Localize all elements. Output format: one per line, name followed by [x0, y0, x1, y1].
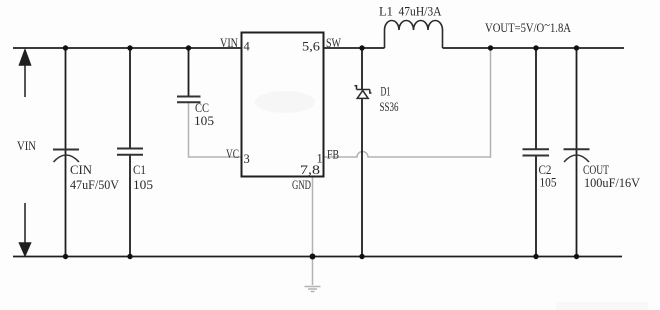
svg-text:VIN: VIN [17, 139, 36, 153]
svg-text:VC: VC [226, 147, 239, 161]
svg-text:105: 105 [133, 178, 153, 192]
svg-text:105: 105 [194, 114, 214, 128]
svg-text:C1: C1 [133, 163, 146, 177]
svg-text:7,8: 7,8 [300, 163, 320, 177]
svg-text:VIN: VIN [220, 36, 238, 50]
svg-text:CC: CC [195, 101, 209, 115]
svg-text:4: 4 [244, 40, 251, 54]
svg-text:100uF/16V: 100uF/16V [584, 176, 640, 190]
svg-text:GND: GND [292, 178, 311, 192]
svg-text:47uF/50V: 47uF/50V [70, 178, 119, 192]
svg-text:L1: L1 [379, 5, 393, 19]
svg-text:5,6: 5,6 [302, 40, 320, 54]
svg-text:VOUT=5V/O~1.8A: VOUT=5V/O~1.8A [485, 18, 571, 35]
svg-text:SW: SW [326, 36, 341, 50]
svg-text:COUT: COUT [583, 163, 609, 177]
svg-text:105: 105 [540, 176, 557, 190]
svg-text:CIN: CIN [70, 163, 92, 177]
svg-text:SS36: SS36 [380, 100, 399, 114]
svg-text:3: 3 [244, 152, 250, 166]
svg-text:D1: D1 [381, 85, 391, 99]
svg-text:FB: FB [327, 148, 339, 162]
svg-text:47uH/3A: 47uH/3A [399, 5, 442, 19]
